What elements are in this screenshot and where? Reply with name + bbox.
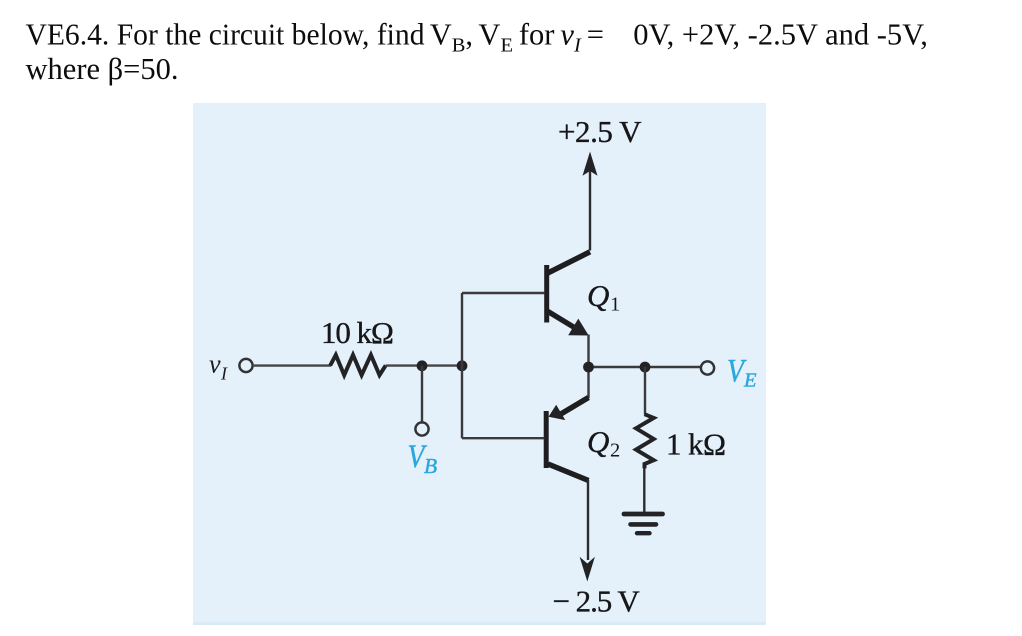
svg-text:v: v: [209, 350, 221, 379]
svg-text:− 2.5 V: − 2.5 V: [553, 584, 641, 619]
svg-text:B: B: [424, 454, 437, 478]
Q2 emitter vertical wire: [587, 367, 589, 398]
Q2 emitter arrowhead: [549, 405, 566, 420]
svg-text:Q: Q: [587, 278, 609, 313]
base connection vertical wire: [461, 293, 463, 438]
transistor Q2: [546, 367, 588, 560]
Q2 base bar: [544, 411, 549, 468]
Q1 emitter vertical wire: [587, 335, 589, 368]
node base junction dot: [457, 360, 468, 371]
VB stub wire: [421, 366, 423, 423]
light blue circuit panel: [193, 103, 766, 625]
VE terminal circle: [701, 361, 714, 374]
transistor Q1: [547, 252, 590, 367]
svg-text:E: E: [743, 370, 757, 392]
load node junction dot: [640, 362, 651, 373]
node VB junction dot: [417, 360, 428, 371]
svg-text:10 kΩ: 10 kΩ: [321, 315, 393, 350]
VB terminal circle: [415, 422, 428, 435]
wire resistor to base node: [386, 364, 462, 366]
svg-text:where β=50.: where β=50.: [26, 52, 179, 86]
resistor 1 kOhm: [636, 414, 654, 468]
resistor 10 kOhm: [330, 355, 386, 375]
wire node to 1k resistor: [644, 367, 646, 415]
wire vI to resistor: [253, 364, 331, 366]
svg-text:1 kΩ: 1 kΩ: [666, 427, 725, 462]
+2.5 V supply arrow: [589, 170, 591, 251]
Q1 emitter arrowhead: [568, 319, 589, 336]
svg-text:0V, +2V, -2.5V and -5V,: 0V, +2V, -2.5V and -5V,: [633, 18, 928, 52]
-2.5 V supply arrowhead: [580, 557, 595, 582]
svg-text:Q: Q: [587, 424, 609, 459]
wire resistor to ground: [643, 468, 645, 513]
ground: [624, 514, 663, 533]
svg-text:VB, VE for vI =: VB, VE for vI =: [430, 18, 604, 57]
wire to Q1 base: [462, 292, 545, 294]
Q2 emitter lead: [560, 398, 589, 415]
Q2 collector lead: [548, 464, 589, 481]
output wire to VE: [589, 366, 701, 368]
Q2 collector vertical wire: [587, 480, 589, 560]
emitter node junction dot: [583, 362, 594, 373]
svg-text:VE6.4. For the circuit below,: VE6.4. For the circuit below, find: [26, 18, 425, 52]
wire to Q2 base: [462, 437, 545, 439]
svg-text:I: I: [220, 364, 228, 384]
svg-text:1: 1: [610, 294, 620, 316]
vI terminal circle: [239, 359, 252, 372]
Q1 base bar: [544, 265, 549, 323]
Q1 collector lead: [548, 252, 591, 273]
svg-text:2: 2: [610, 440, 620, 462]
svg-text:+2.5 V: +2.5 V: [558, 114, 642, 149]
Q1 emitter lead: [548, 311, 577, 328]
